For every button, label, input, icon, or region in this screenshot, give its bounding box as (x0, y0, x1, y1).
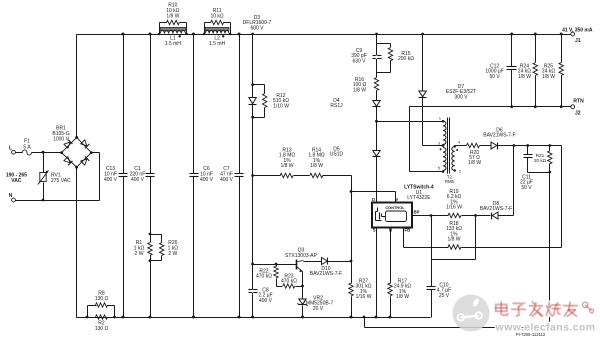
svg-text:LYT4322E: LYT4322E (407, 195, 431, 201)
svg-text:US1D: US1D (330, 152, 344, 158)
svg-text:1/8 W: 1/8 W (310, 163, 323, 169)
svg-text:4: 4 (458, 141, 460, 145)
svg-text:400 V: 400 V (200, 177, 214, 183)
svg-text:300 V: 300 V (454, 94, 468, 100)
svg-text:400 V: 400 V (259, 298, 273, 304)
svg-text:RM5: RM5 (445, 179, 455, 184)
svg-text:5: 5 (438, 166, 440, 170)
svg-text:20 kΩ: 20 kΩ (534, 158, 547, 163)
svg-text:1/10 W: 1/10 W (273, 103, 289, 109)
svg-text:20 V: 20 V (313, 306, 324, 312)
svg-text:5 A: 5 A (23, 144, 31, 150)
svg-text:BAV21WS-7-F: BAV21WS-7-F (483, 133, 515, 139)
svg-text:BAV21WS-7-F: BAV21WS-7-F (480, 206, 512, 212)
svg-text:1.5 mH: 1.5 mH (209, 41, 226, 47)
svg-text:1/8 W: 1/8 W (542, 74, 555, 80)
svg-text:400 V: 400 V (131, 177, 145, 183)
svg-text:50 V: 50 V (489, 74, 500, 80)
svg-text:2 W: 2 W (168, 251, 177, 257)
svg-text:V: V (395, 197, 398, 202)
svg-text:630 V: 630 V (352, 58, 366, 64)
svg-text:J1: J1 (575, 38, 581, 44)
svg-text:STX13003-AP: STX13003-AP (285, 253, 318, 259)
svg-text:25 V: 25 V (439, 293, 450, 299)
svg-text:S: S (373, 227, 376, 232)
svg-text:3: 3 (438, 142, 440, 146)
svg-text:600 V: 600 V (250, 25, 264, 31)
svg-text:2 W: 2 W (135, 251, 144, 257)
svg-text:200 kΩ: 200 kΩ (398, 56, 414, 62)
svg-text:RS1J: RS1J (330, 103, 343, 109)
svg-text:FB: FB (405, 227, 411, 232)
svg-text:CONTROL: CONTROL (385, 205, 405, 210)
svg-text:2: 2 (459, 170, 461, 174)
svg-text:1/16 W: 1/16 W (356, 294, 372, 300)
svg-text:130 Ω: 130 Ω (95, 326, 109, 332)
svg-text:1/8 W: 1/8 W (447, 237, 460, 243)
svg-text:1/8 W: 1/8 W (166, 14, 179, 20)
svg-text:www.elecfans.com: www.elecfans.com (495, 322, 596, 334)
svg-text:RTN: RTN (573, 99, 584, 105)
svg-text:41 V, 350 mA: 41 V, 350 mA (562, 28, 593, 34)
svg-text:L: L (9, 145, 12, 151)
svg-text:1/8 W: 1/8 W (396, 294, 409, 300)
svg-text:BP: BP (414, 210, 420, 215)
svg-text:N: N (9, 193, 13, 199)
svg-text:VAC: VAC (11, 178, 22, 184)
svg-text:470 kΩ: 470 kΩ (281, 279, 297, 285)
svg-text:400 V: 400 V (104, 177, 118, 183)
svg-text:1.5 mH: 1.5 mH (165, 41, 182, 47)
svg-text:1/8 W: 1/8 W (353, 87, 366, 93)
svg-text:470 kΩ: 470 kΩ (256, 274, 272, 280)
svg-text:1000 V: 1000 V (53, 137, 70, 143)
svg-text:10 kΩ: 10 kΩ (210, 14, 223, 20)
svg-text:1/8 W: 1/8 W (468, 160, 481, 166)
svg-text:1/8 W: 1/8 W (280, 163, 293, 169)
svg-text:J2: J2 (575, 111, 581, 117)
svg-text:275 VAC: 275 VAC (51, 178, 71, 184)
svg-text:130 Ω: 130 Ω (95, 296, 109, 302)
svg-text:1/16 W: 1/16 W (446, 205, 462, 211)
svg-text:1/8 W: 1/8 W (518, 74, 531, 80)
svg-text:400 V: 400 V (220, 177, 234, 183)
svg-text:50 V: 50 V (521, 185, 532, 191)
svg-text:1: 1 (439, 116, 441, 120)
svg-text:D: D (372, 197, 375, 202)
svg-text:BAV21WS-7-F: BAV21WS-7-F (310, 271, 342, 277)
